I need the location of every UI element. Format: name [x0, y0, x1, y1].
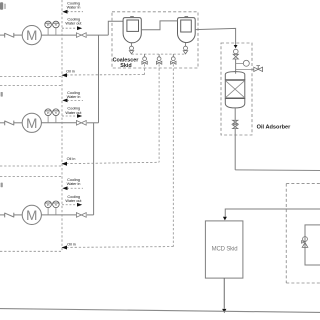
wire row2 motor to valve [41, 122, 76, 124]
wire row3 to motor [14, 214, 22, 216]
svg-text:Water in: Water in [67, 5, 81, 10]
valve row3 [76, 213, 86, 218]
MCD skid box [205, 221, 243, 278]
vent valve with actuator [254, 66, 263, 72]
valve on tank edge [302, 237, 308, 248]
instrument stems row1 [48, 28, 56, 35]
svg-text:M: M [26, 28, 37, 43]
instrument bubble TI row2 [53, 109, 60, 116]
coalescer vessel V1 [123, 17, 141, 43]
svg-text:PI: PI [47, 23, 50, 27]
corner smudge [0, 2, 3, 10]
instrument bubble adsorber [243, 60, 249, 66]
instrument bubble TI row1 [53, 21, 60, 28]
wire to right edge [235, 169, 320, 172]
adsorber outlet wire [234, 108, 236, 120]
svg-text:PI: PI [47, 203, 50, 207]
cooling water out line row1 [62, 27, 77, 29]
instrument stems row2 [48, 115, 56, 122]
spec blind circle [234, 49, 239, 54]
oil in line row2 [0, 165, 61, 167]
wire row2 valve to header [87, 122, 99, 124]
adsorber vessel shell [225, 72, 245, 108]
oil adsorber dashed boundary [221, 43, 252, 135]
svg-text:Water out: Water out [65, 21, 82, 26]
wire row1 to motor [14, 34, 22, 36]
wire V1 to V2 [141, 21, 177, 30]
svg-text:Water out: Water out [65, 198, 82, 203]
flex joint row3 [5, 213, 14, 218]
feed arrow into adsorber [234, 45, 238, 48]
vent branch [236, 69, 254, 71]
drain valve under V2 [183, 42, 187, 54]
cooling water in line row1 [67, 11, 83, 13]
wire row3 motor to valve [41, 214, 76, 216]
coalescer skid label [113, 57, 140, 69]
right dashed boundary box [286, 184, 320, 283]
svg-text:MCD Skid: MCD Skid [212, 247, 238, 253]
svg-text:TI: TI [55, 203, 58, 207]
svg-text:Water out: Water out [65, 110, 82, 115]
instrument bubble PI row1 [45, 21, 52, 28]
cooling water out line row2 [62, 115, 77, 117]
svg-text:Oil in: Oil in [67, 241, 76, 246]
bubble tick marks [47, 23, 58, 207]
svg-text:TI: TI [55, 23, 58, 27]
cooling water out line row3 [62, 204, 77, 206]
wire to vessel top [235, 59, 237, 74]
drain drop line A [144, 64, 146, 75]
wire row2 inlet [0, 122, 5, 124]
coalescer skid dashed boundary [112, 12, 198, 68]
takeoff valve C [171, 54, 176, 64]
battery limit dashed boundary [61, 0, 63, 251]
coalescer vessel V2 [178, 17, 196, 43]
instrument branch [236, 63, 244, 65]
flex joint row2 [5, 121, 14, 126]
motor M2 [22, 113, 41, 132]
wire row1 motor to valve [41, 34, 76, 36]
svg-text:Water in: Water in [67, 94, 81, 99]
svg-text:Water in: Water in [67, 181, 81, 186]
wire row3 valve to header [87, 214, 94, 216]
cooling water in line row2 [67, 99, 83, 101]
takeoff valve A [142, 54, 147, 64]
svg-text:Skid: Skid [120, 63, 131, 69]
wire row2 to motor [14, 122, 22, 124]
svg-text:M: M [26, 116, 37, 131]
MCD outlet arrow [222, 309, 226, 313]
cooling water in line row3 [67, 187, 83, 189]
MCD feed wire [225, 209, 320, 217]
svg-text:M: M [26, 208, 37, 223]
drain drop line B [158, 64, 160, 162]
svg-text:Oil Adsorber: Oil Adsorber [257, 125, 291, 131]
motor M1 [22, 25, 41, 44]
flex joint row1 [5, 33, 14, 38]
svg-text:Oil in: Oil in [67, 156, 76, 161]
adsorber X packing [225, 81, 245, 98]
cooling water labels row1 [65, 1, 82, 26]
MCD outlet wire [223, 278, 225, 309]
wire V2 outlet to adsorber [195, 28, 235, 45]
header wire row2-row3 [93, 123, 95, 215]
valve row1 [76, 33, 86, 38]
drain header dashed [132, 53, 186, 55]
motor M3 [22, 205, 41, 224]
oil in line row1 [0, 76, 61, 78]
instrument stems row3 [48, 208, 56, 215]
MCD feed arrow [223, 217, 227, 221]
svg-text:Oil in: Oil in [66, 68, 75, 73]
cut-off tag text row2 [1, 92, 3, 97]
bottom pipeline [0, 309, 320, 313]
wire row1 valve to jog [87, 34, 108, 36]
instrument bubble PI row2 [45, 109, 52, 116]
oil in line row3 [0, 250, 61, 252]
cooling water labels row2 [65, 90, 82, 115]
instrument bubble PI row3 [45, 201, 52, 208]
adsorber bottom seam [225, 97, 245, 99]
svg-text:TI: TI [55, 111, 58, 115]
wire outlet down [234, 129, 236, 170]
cooling water labels row3 [65, 177, 82, 203]
outlet valve (vertical bowtie) [233, 120, 238, 128]
drain valve under V1 [129, 43, 133, 54]
valve row2 [76, 121, 86, 126]
adsorber top seam [225, 79, 245, 81]
takeoff valve B [156, 54, 161, 64]
right inner tank [305, 225, 320, 265]
wire row3 inlet [0, 214, 5, 216]
pump train dashed enclosures (left, cut off) [0, 85, 62, 87]
inlet valve (vertical bowtie) [233, 54, 238, 59]
adsorber body sides [225, 80, 245, 99]
drain drop line C [172, 64, 174, 246]
svg-text:PI: PI [47, 111, 50, 115]
wire jog up to coalescer inlet [108, 21, 123, 35]
wire row1 inlet [0, 34, 5, 36]
cut-off tag text row3 [1, 183, 3, 188]
instrument bubble TI row3 [53, 201, 60, 208]
header wire row1-row2 [98, 35, 100, 123]
